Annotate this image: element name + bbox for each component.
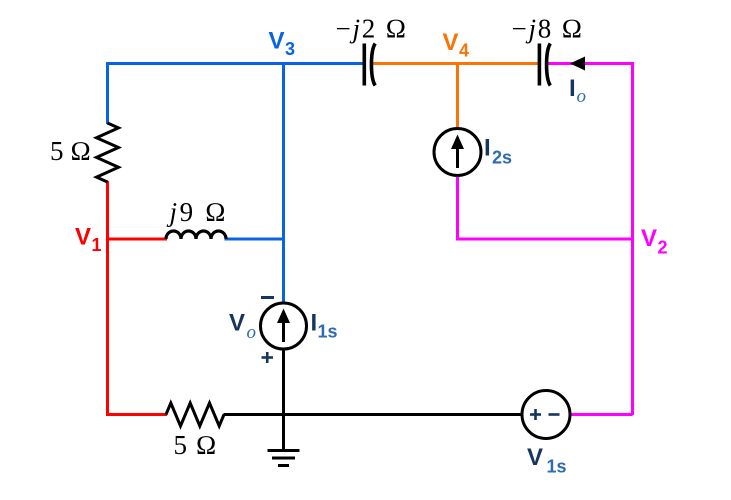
ground [268,415,300,466]
inductor j9 ohm [166,231,226,239]
wire V3 vertical blue down to I1s [282,64,285,304]
wire top blue: V3 node horizontal run [108,64,365,125]
svg-text:1: 1 [92,235,102,255]
label minus above I1s [261,296,274,299]
svg-text:V: V [641,225,657,252]
wire red left vertical: below 5ohm resistor through V1 to bottom corner [108,181,168,415]
svg-text:1s: 1s [318,322,338,342]
svg-text:4: 4 [459,41,469,61]
svg-text:V: V [527,444,543,471]
svg-text:−j8 Ω: −j8 Ω [512,13,585,43]
svg-text:I: I [569,75,576,102]
resistor 5ohm horizontal (bottom) [166,403,224,426]
wire magenta: C2 to top-right corner and down right side [547,64,633,416]
resistor 5ohm vertical (left) [97,123,119,182]
svg-text:V: V [75,224,91,251]
wire orange V4 vertical to I2s top [456,64,459,130]
capacitor C1 -j2 ohm [364,44,375,86]
svg-text:2s: 2s [492,148,512,168]
svg-text:o: o [577,86,587,107]
current source I1s [261,303,307,349]
svg-text:I: I [311,310,318,337]
capacitor C2 -j8 ohm [539,44,550,86]
wire black below I1s source to bottom wire [282,349,285,415]
svg-text:−j2 Ω: −j2 Ω [336,13,409,43]
wire red V1 to inductor [108,238,168,241]
svg-text:3: 3 [285,39,295,59]
voltage source V1s [522,391,570,439]
label plus below I1s [262,352,274,363]
wire blue from inductor to V3 vertical [225,238,284,241]
svg-text:I: I [484,135,491,162]
wire magenta bottom right: V1s to right vertical [570,413,633,416]
svg-text:5 Ω: 5 Ω [174,430,218,460]
wire orange: C1 to C2 with V4 [372,62,540,65]
wire black bottom: resistor to V1s source [224,413,523,416]
svg-text:o: o [247,322,257,343]
svg-text:V: V [443,29,459,56]
svg-text:2: 2 [658,238,668,258]
svg-text:V: V [229,310,245,337]
current source I2s [434,129,481,176]
arrow Io on top-right wire [570,57,585,71]
wire magenta below I2s to right vertical [458,175,633,239]
svg-text:V: V [269,28,285,55]
svg-text:j9 Ω: j9 Ω [167,197,229,227]
svg-text:5 Ω: 5 Ω [50,136,91,166]
svg-text:1s: 1s [547,457,567,477]
